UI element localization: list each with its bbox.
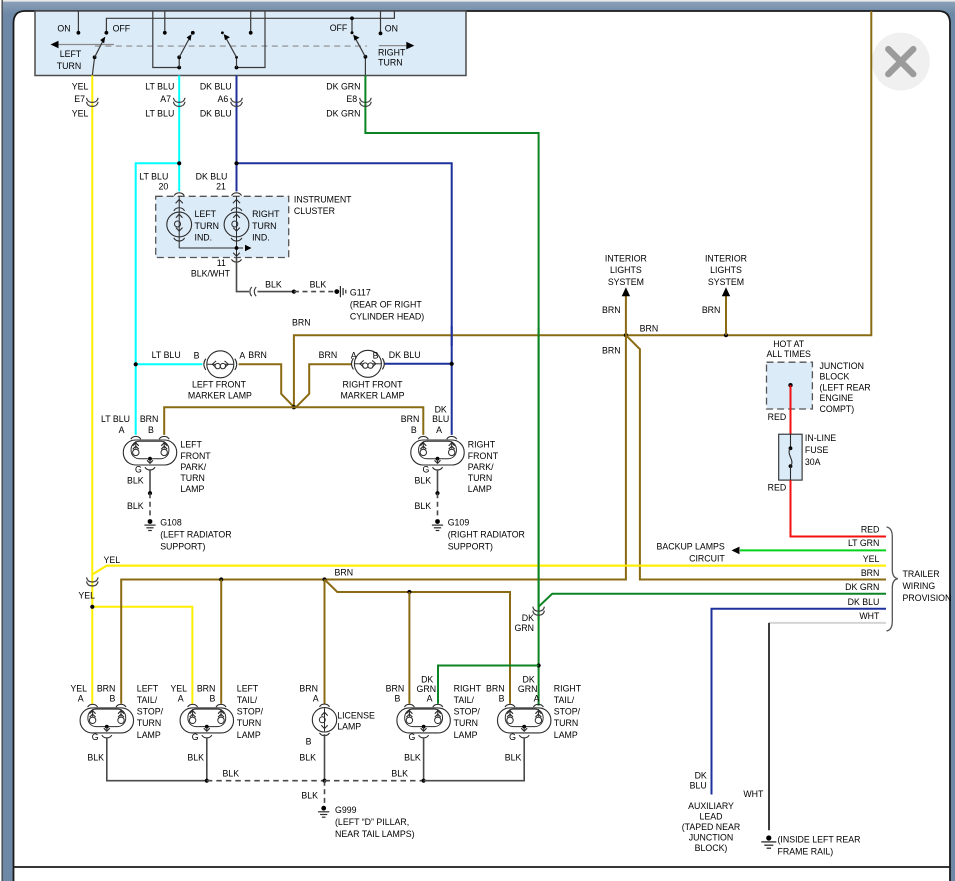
wire YEL branch to 2nd tail lamp (92, 607, 192, 704)
svg-text:STOP/: STOP/ (137, 707, 164, 717)
svg-text:ENGINE: ENGINE (820, 393, 854, 403)
svg-text:TURN: TURN (237, 718, 261, 728)
left front park/turn lamp (123, 440, 176, 465)
svg-text:BLOCK): BLOCK) (695, 843, 728, 853)
svg-text:DK: DK (435, 405, 447, 415)
connector E7 (87, 98, 99, 103)
svg-text:TURN: TURN (454, 718, 478, 728)
svg-text:DK BLU: DK BLU (848, 597, 880, 607)
cluster pin 20 (174, 193, 184, 196)
wire WHT trailer (769, 622, 886, 624)
svg-text:DK BLU: DK BLU (200, 109, 232, 119)
svg-text:GRN: GRN (518, 684, 538, 694)
svg-text:HOT AT: HOT AT (773, 339, 805, 349)
svg-text:DK: DK (695, 770, 707, 780)
wire LT GRN backup lamps circuit (740, 549, 886, 551)
wire BRN lower branch to right tail lamps (325, 580, 511, 704)
ground G108 (148, 519, 153, 524)
switch S4 (right turn, DK GRN) (364, 57, 366, 76)
svg-text:TURN: TURN (137, 718, 161, 728)
svg-text:LEFT: LEFT (237, 683, 259, 693)
ground inside left rear frame rail (766, 835, 771, 840)
svg-text:ON: ON (385, 23, 398, 33)
wire YEL trailer horizontal (92, 566, 886, 575)
svg-text:YEL: YEL (863, 554, 880, 564)
connector DK GRN (533, 607, 545, 612)
wire LT BLU to marker lamp B (136, 363, 203, 365)
svg-text:G109: G109 (448, 517, 470, 527)
wire BRN down to tail lamps (121, 335, 626, 703)
svg-text:OFF: OFF (113, 23, 131, 33)
right front park/turn lamp (411, 440, 464, 465)
svg-text:STOP/: STOP/ (554, 707, 581, 717)
svg-text:AUXILIARY: AUXILIARY (688, 801, 734, 811)
node BRN interior lights 1 (624, 333, 628, 337)
svg-text:PARK/: PARK/ (180, 462, 206, 472)
svg-text:FUSE: FUSE (805, 445, 829, 455)
node DK GRN branch (537, 663, 541, 667)
svg-text:LEFT: LEFT (60, 49, 82, 59)
svg-text:COMPT): COMPT) (820, 404, 855, 414)
svg-text:(LEFT REAR: (LEFT REAR (820, 382, 871, 392)
wire BRN drop right tail lamp 1 (408, 592, 410, 704)
svg-text:BLK: BLK (301, 791, 318, 801)
svg-text:WHT: WHT (743, 789, 764, 799)
wire DK BLU branch to right front (237, 163, 452, 435)
svg-text:GRN: GRN (514, 623, 534, 633)
svg-text:YEL: YEL (72, 82, 89, 92)
lamp LEFT TURN IND (167, 212, 192, 237)
svg-text:G108: G108 (160, 517, 182, 527)
svg-text:JUNCTION: JUNCTION (820, 361, 864, 371)
svg-text:YEL: YEL (72, 109, 89, 119)
svg-text:A: A (534, 694, 540, 704)
wire WHT down to frame ground (768, 623, 770, 830)
connector A7 (173, 98, 185, 103)
wire DK GRN vertical (over YEL/BRN) (538, 328, 540, 620)
svg-text:LT BLU: LT BLU (145, 109, 174, 119)
in-line fuse 30A (779, 434, 802, 480)
svg-text:A7: A7 (160, 94, 171, 104)
right tail/stop/turn lamp 2 (498, 708, 551, 733)
svg-text:RED: RED (861, 525, 880, 535)
svg-text:LEFT: LEFT (195, 209, 217, 219)
svg-text:BRN: BRN (486, 683, 505, 693)
cluster pin 21 (232, 193, 242, 196)
svg-text:SUPPORT): SUPPORT) (160, 541, 205, 551)
svg-text:RIGHT: RIGHT (378, 48, 406, 58)
right front marker lamp (354, 350, 381, 377)
svg-text:YEL: YEL (170, 683, 187, 693)
svg-text:21: 21 (216, 182, 226, 192)
svg-text:B: B (394, 694, 400, 704)
svg-text:IND.: IND. (195, 233, 213, 243)
wire RED to trailer (791, 480, 887, 536)
wire BRN main feed from top (294, 11, 871, 407)
wire BLK left park ground (149, 470, 151, 493)
left tail/stop/turn lamp 1 (80, 708, 133, 733)
svg-text:BRN: BRN (386, 683, 405, 693)
wire LT BLU branch to front lamps (136, 163, 180, 435)
svg-text:SUPPORT): SUPPORT) (448, 541, 493, 551)
svg-text:LT BLU: LT BLU (139, 171, 168, 181)
svg-text:ALL TIMES: ALL TIMES (766, 349, 811, 359)
wire DK GRN to right tail lamp 1 (438, 666, 539, 704)
svg-text:LEFT FRONT: LEFT FRONT (192, 379, 247, 389)
svg-text:BRN: BRN (299, 683, 318, 693)
lamp RIGHT TURN IND (224, 212, 249, 237)
svg-text:DK BLU: DK BLU (196, 171, 228, 181)
svg-text:LIGHTS: LIGHTS (610, 265, 642, 275)
svg-text:BLK: BLK (299, 752, 316, 762)
svg-text:E8: E8 (346, 94, 357, 104)
svg-text:BLK: BLK (187, 752, 204, 762)
svg-text:BLK/WHT: BLK/WHT (191, 269, 231, 279)
svg-text:A: A (427, 694, 433, 704)
wire DK BLU to right marker lamp B (384, 363, 452, 365)
right tail/stop/turn lamp 1 (397, 708, 450, 733)
svg-text:A6: A6 (218, 94, 229, 104)
wire BLK dashed bus to right tail 1 (325, 780, 423, 782)
svg-text:BLK: BLK (391, 769, 408, 779)
svg-text:TURN: TURN (468, 473, 492, 483)
svg-text:BLK: BLK (415, 501, 432, 511)
svg-text:BRN: BRN (319, 350, 338, 360)
svg-text:G: G (135, 464, 142, 474)
connector YEL mid (at trailer takeoff) (87, 577, 99, 582)
cluster pin 11 exit (232, 259, 242, 262)
connector E8 (360, 98, 372, 103)
svg-text:BRN: BRN (335, 567, 354, 577)
license lamp (312, 708, 336, 732)
svg-text:STOP/: STOP/ (237, 707, 264, 717)
svg-text:BLK: BLK (415, 476, 432, 486)
svg-text:A: A (313, 694, 319, 704)
svg-text:DK BLU: DK BLU (389, 350, 421, 360)
svg-text:LIGHTS: LIGHTS (710, 265, 742, 275)
svg-text:BACKUP LAMPS: BACKUP LAMPS (657, 542, 725, 552)
svg-text:G: G (92, 732, 99, 742)
svg-text:B: B (499, 694, 505, 704)
svg-text:LAMP: LAMP (337, 721, 361, 731)
switch S2 (LT BLU pole) (178, 57, 180, 67)
svg-text:G999: G999 (335, 805, 357, 815)
node junction block tap (788, 383, 792, 387)
svg-text:RIGHT: RIGHT (468, 440, 496, 450)
svg-text:DK GRN: DK GRN (326, 82, 360, 92)
svg-text:B: B (306, 737, 312, 747)
wire BLK license lamp ground (324, 734, 326, 781)
ground G109 (435, 519, 440, 524)
svg-text:YEL: YEL (78, 591, 95, 601)
wire YEL trailer horizontal (over BRN) (92, 566, 886, 575)
svg-text:BRN: BRN (640, 323, 659, 333)
ground G999 (321, 806, 326, 811)
wire DK GRN from switch (365, 75, 538, 705)
svg-text:TURN: TURN (252, 221, 276, 231)
svg-text:PARK/: PARK/ (468, 462, 494, 472)
svg-text:LAMP: LAMP (468, 484, 492, 494)
svg-text:BLK: BLK (265, 279, 282, 289)
RIGHT TURN arrow (379, 45, 409, 47)
wire BLK right park ground (437, 470, 439, 493)
svg-text:BLK: BLK (505, 752, 522, 762)
svg-text:LT BLU: LT BLU (145, 82, 174, 92)
svg-text:RIGHT: RIGHT (454, 683, 482, 693)
wire LT BLU from switch (178, 75, 180, 191)
svg-text:BRN: BRN (602, 346, 621, 356)
svg-text:LAMP: LAMP (137, 730, 161, 740)
wire BLK tail lamp 2 ground (206, 738, 208, 781)
svg-text:CIRCUIT: CIRCUIT (689, 554, 725, 564)
turn signal switch box (35, 11, 466, 76)
left tail/stop/turn lamp 2 (180, 708, 233, 733)
svg-text:FRONT: FRONT (180, 451, 211, 461)
svg-text:NEAR TAIL LAMPS): NEAR TAIL LAMPS) (335, 829, 415, 839)
svg-text:FRAME RAIL): FRAME RAIL) (778, 846, 834, 856)
svg-text:TRAILER: TRAILER (903, 569, 940, 579)
svg-text:INSTRUMENT: INSTRUMENT (294, 195, 352, 205)
diagram bottom frame line (14, 866, 951, 868)
svg-text:BRN: BRN (401, 414, 420, 424)
svg-text:CLUSTER: CLUSTER (294, 206, 335, 216)
svg-text:LAMP: LAMP (237, 730, 261, 740)
svg-text:SYSTEM: SYSTEM (708, 277, 744, 287)
svg-text:BRN: BRN (140, 414, 159, 424)
wire BRN drop license lamp (324, 580, 326, 705)
svg-text:A: A (119, 425, 125, 435)
instrument cluster box (156, 196, 289, 257)
close (X) button (872, 33, 930, 91)
svg-text:BLK: BLK (127, 501, 144, 511)
wire DK BLU from switch (236, 75, 238, 191)
svg-text:20: 20 (159, 182, 169, 192)
svg-text:BLK: BLK (404, 752, 421, 762)
svg-text:INTERIOR: INTERIOR (705, 254, 747, 264)
svg-text:LT BLU: LT BLU (101, 414, 130, 424)
svg-text:(RIGHT RADIATOR: (RIGHT RADIATOR (448, 529, 525, 539)
wire BLK bus to right tail lamp 2 (424, 738, 525, 781)
cluster internal common with arrow (179, 247, 243, 249)
svg-text:TAIL/: TAIL/ (454, 695, 475, 705)
svg-text:LAMP: LAMP (554, 730, 578, 740)
wire BLK/WHT to G117 (237, 258, 250, 292)
svg-text:YEL: YEL (70, 683, 87, 693)
svg-text:(LEFT “D” PILLAR,: (LEFT “D” PILLAR, (335, 817, 409, 827)
svg-text:WIRING: WIRING (903, 581, 936, 591)
wire BLK right tail lamp 1 ground (423, 738, 425, 781)
svg-text:11: 11 (217, 258, 226, 268)
wire BLK dashed bus to license (207, 780, 325, 782)
svg-text:LAMP: LAMP (180, 484, 204, 494)
svg-text:(REAR OF RIGHT: (REAR OF RIGHT (350, 299, 422, 309)
svg-text:BLK: BLK (127, 476, 144, 486)
svg-text:STOP/: STOP/ (454, 707, 481, 717)
svg-text:BLK: BLK (223, 769, 240, 779)
node BRN interior lights 2 (724, 333, 728, 337)
switch neutral dashed line (95, 45, 367, 47)
svg-text:(TAPED NEAR: (TAPED NEAR (682, 822, 741, 832)
node BRN park lamps junction (292, 405, 296, 409)
left front marker lamp (207, 351, 234, 378)
svg-text:TAIL/: TAIL/ (237, 695, 258, 705)
svg-text:BRN: BRN (602, 305, 621, 315)
svg-text:(LEFT RADIATOR: (LEFT RADIATOR (160, 529, 231, 539)
svg-text:LT GRN: LT GRN (848, 538, 879, 548)
svg-text:RED: RED (768, 482, 787, 492)
wire YEL from switch (vertical main) (91, 75, 93, 703)
svg-text:A: A (178, 694, 184, 704)
connector A6 (231, 98, 243, 103)
switch S1 (left turn, YEL) (92, 57, 94, 75)
svg-text:BRN: BRN (702, 305, 721, 315)
svg-text:SYSTEM: SYSTEM (608, 277, 644, 287)
wire BRN drop tail lamp 2 (220, 580, 222, 704)
svg-text:DK: DK (522, 674, 534, 684)
svg-text:CYLINDER HEAD): CYLINDER HEAD) (350, 311, 424, 321)
svg-text:LAMP: LAMP (454, 730, 478, 740)
svg-text:B: B (109, 694, 115, 704)
svg-text:BRN: BRN (248, 350, 267, 360)
svg-text:DK GRN: DK GRN (326, 109, 360, 119)
svg-text:TURN: TURN (57, 61, 81, 71)
svg-text:G: G (409, 732, 416, 742)
svg-text:DK GRN: DK GRN (845, 582, 879, 592)
svg-text:LT BLU: LT BLU (152, 350, 181, 360)
svg-text:IND.: IND. (252, 233, 270, 243)
svg-text:INTERIOR: INTERIOR (605, 254, 647, 264)
wire DK GRN trailer takeoff (539, 594, 886, 607)
svg-text:YEL: YEL (104, 555, 121, 565)
svg-text:BLK: BLK (87, 752, 104, 762)
svg-text:OFF: OFF (330, 23, 348, 33)
svg-text:BRN: BRN (861, 568, 880, 578)
svg-text:G: G (192, 732, 199, 742)
switch S3 (DK BLU pole) (236, 57, 238, 67)
svg-text:A: A (436, 425, 442, 435)
wire BRN to left park lamp B (164, 407, 294, 435)
svg-text:E7: E7 (74, 94, 85, 104)
svg-text:30A: 30A (805, 457, 821, 467)
svg-text:BLOCK: BLOCK (820, 372, 850, 382)
svg-text:A: A (351, 350, 357, 360)
svg-text:BLU: BLU (690, 780, 707, 790)
svg-text:RIGHT FRONT: RIGHT FRONT (343, 379, 404, 389)
svg-text:G: G (422, 464, 429, 474)
svg-text:RIGHT: RIGHT (554, 683, 582, 693)
svg-text:DK: DK (421, 674, 433, 684)
wire DK BLU trailer / auxiliary lead (712, 609, 887, 795)
svg-text:BRN: BRN (292, 318, 311, 328)
wire BLK tail lamp 1 ground (107, 738, 207, 781)
wire BRN to right park lamp B (294, 407, 423, 435)
svg-text:DK: DK (522, 613, 534, 623)
svg-text:B: B (373, 350, 379, 360)
svg-text:RED: RED (768, 412, 787, 422)
wire BRN down to trailer (626, 335, 886, 579)
svg-text:WHT: WHT (859, 611, 880, 621)
wire BRN marker lamp right leg (296, 364, 352, 407)
wire BRN riser to interior lights 2 (725, 294, 727, 335)
LEFT TURN arrow (58, 44, 114, 46)
svg-text:RIGHT: RIGHT (252, 209, 280, 219)
wire BRN marker lamp left leg (239, 364, 294, 407)
svg-text:TURN: TURN (378, 58, 402, 68)
svg-text:FRONT: FRONT (468, 451, 499, 461)
svg-text:B: B (411, 425, 417, 435)
svg-text:B: B (148, 425, 154, 435)
nodes on tail lamp BRN bus (219, 577, 223, 581)
svg-text:MARKER LAMP: MARKER LAMP (188, 391, 252, 401)
trailer wiring provision brace (887, 527, 898, 631)
ground G117 (334, 289, 339, 294)
switch pole risers (153, 11, 179, 68)
svg-text:ON: ON (57, 23, 70, 33)
svg-text:TURN: TURN (554, 718, 578, 728)
svg-text:B: B (194, 350, 200, 360)
svg-text:LEAD: LEAD (700, 811, 723, 821)
junction yellow (90, 605, 94, 609)
wire RED to fuse (790, 385, 792, 434)
svg-text:G117: G117 (350, 287, 371, 297)
svg-text:TAIL/: TAIL/ (554, 695, 575, 705)
switch common bus (OFF contacts tie) (106, 11, 394, 33)
svg-text:MARKER LAMP: MARKER LAMP (340, 391, 404, 401)
svg-text:B: B (209, 694, 215, 704)
svg-text:TURN: TURN (180, 473, 204, 483)
svg-text:PROVISION: PROVISION (903, 593, 952, 603)
svg-text:IN-LINE: IN-LINE (805, 433, 836, 443)
wire BLK dashed to ground (294, 291, 334, 293)
svg-text:(INSIDE LEFT REAR: (INSIDE LEFT REAR (778, 834, 861, 844)
svg-text:BRN: BRN (97, 683, 116, 693)
svg-text:TAIL/: TAIL/ (137, 695, 158, 705)
svg-text:LICENSE: LICENSE (337, 710, 375, 720)
switch feed wires from top (77, 11, 79, 33)
svg-text:GRN: GRN (417, 684, 437, 694)
svg-text:LEFT: LEFT (180, 440, 202, 450)
svg-text:TURN: TURN (195, 221, 219, 231)
svg-text:DK BLU: DK BLU (200, 82, 232, 92)
svg-text:JUNCTION: JUNCTION (689, 832, 733, 842)
svg-text:A: A (78, 694, 84, 704)
svg-text:A: A (239, 350, 245, 360)
wire BLK dashed to G999 (324, 781, 326, 803)
wire DK BLU vertical (over BRN) (451, 326, 453, 346)
wire BRN riser to interior lights 1 (625, 294, 627, 335)
svg-text:G: G (509, 732, 516, 742)
svg-text:LEFT: LEFT (137, 683, 159, 693)
svg-text:BLU: BLU (432, 414, 449, 424)
svg-text:BRN: BRN (197, 683, 216, 693)
svg-text:BLK: BLK (310, 279, 327, 289)
